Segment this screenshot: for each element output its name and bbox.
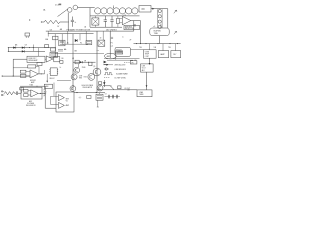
- label 2s: [60, 67, 62, 69]
- diode CR4: [75, 39, 78, 42]
- wire: [61, 34, 63, 45]
- wire: [73, 62, 96, 63]
- svg-text:2s: 2s: [60, 67, 62, 69]
- svg-text:c/L: c/L: [153, 26, 155, 28]
- fuse F1 body: [59, 4, 62, 6]
- label 2R: [100, 37, 102, 39]
- svg-text:CONT: CONT: [145, 56, 149, 58]
- wire: [90, 16, 122, 27]
- aux box: [21, 87, 42, 99]
- wire: [97, 89, 137, 91]
- bus line 1: [46, 30, 134, 32]
- svg-text:+: +: [31, 95, 32, 97]
- label AA: [64, 48, 67, 51]
- svg-text:DC REF LEVEL: DC REF LEVEL: [115, 78, 126, 80]
- wire: [131, 49, 144, 51]
- rail 2: [8, 51, 45, 52]
- svg-text:4s: 4s: [67, 42, 69, 44]
- label AC OUT: [128, 89, 131, 92]
- wire: [67, 31, 69, 44]
- op-amp U1: [120, 16, 131, 24]
- svg-text:REG IC: REG IC: [50, 78, 56, 80]
- label F2: [80, 43, 82, 45]
- transistor Q4: [88, 74, 95, 81]
- legend row 3: [104, 72, 128, 75]
- wire: [150, 44, 176, 51]
- diode CR7: [22, 47, 25, 49]
- wire: [96, 31, 98, 92]
- ref box: [44, 84, 52, 88]
- fuse F3: [25, 33, 30, 38]
- svg-text:+: +: [31, 76, 32, 78]
- wire: [79, 34, 81, 41]
- label BB: [75, 51, 78, 53]
- bridge rectifier CR5: [98, 40, 105, 46]
- resistor R14: [118, 86, 121, 89]
- diode CR9: [80, 61, 83, 63]
- bridge rectifier CR1: [92, 16, 99, 27]
- wire: [53, 83, 55, 97]
- bus label 2: [106, 30, 117, 32]
- svg-text:DETECTOR: DETECTOR: [125, 28, 134, 30]
- center tap: [112, 5, 115, 8]
- label Q5: [93, 66, 95, 68]
- op-amp U5: [58, 95, 64, 101]
- legend row 4: [104, 78, 126, 80]
- svg-text:C9: C9: [105, 93, 107, 95]
- svg-text:VOLT: VOLT: [142, 68, 146, 70]
- pot VR1: [124, 61, 137, 65]
- IC label: [50, 78, 56, 80]
- svg-text:2F: 2F: [130, 40, 132, 42]
- bus line 3: [134, 43, 181, 44]
- wire: [102, 31, 104, 40]
- regulator tube V1: [157, 9, 162, 29]
- bus label: [60, 28, 91, 31]
- resistor R10: [4, 92, 15, 95]
- transformer T1: [139, 6, 151, 13]
- label C8: [134, 60, 136, 62]
- amplifier label box: [124, 25, 139, 30]
- terminal E1: [1, 91, 4, 92]
- svg-text:ERROR: ERROR: [30, 80, 37, 82]
- wire: [97, 93, 100, 107]
- oven control box: [144, 50, 157, 58]
- wire: [67, 13, 69, 32]
- wire: [45, 107, 56, 109]
- svg-text:SET: SET: [44, 94, 47, 96]
- legend row 1: [104, 68, 127, 71]
- svg-text:1c: 1c: [122, 37, 124, 39]
- wire: [115, 56, 117, 59]
- svg-text:C8: C8: [134, 60, 136, 62]
- tilde marks: [97, 50, 100, 52]
- transistor Q5: [93, 68, 101, 76]
- label TH: [174, 31, 178, 35]
- svg-text:IC8: IC8: [124, 15, 127, 17]
- tick marks: [111, 37, 113, 38]
- wire: [78, 64, 80, 68]
- sense amp box: [27, 56, 45, 62]
- svg-text:LINE VOLT: LINE VOLT: [28, 58, 36, 60]
- op-amp U6: [58, 102, 64, 108]
- resistor R9: [87, 96, 91, 99]
- resistor R6: [20, 70, 30, 73]
- svg-text:TEMP: TEMP: [145, 54, 149, 56]
- label R6: [62, 58, 64, 60]
- wire: [45, 48, 55, 60]
- wire: [38, 48, 40, 57]
- svg-text:HV OUT: HV OUT: [125, 88, 131, 90]
- wire: [7, 48, 9, 52]
- sense inner box: [116, 51, 123, 54]
- svg-text:R6: R6: [62, 58, 64, 60]
- hv adjust label: [44, 90, 47, 98]
- wire: [131, 20, 141, 22]
- wire: [47, 31, 49, 36]
- label T2: [110, 85, 112, 87]
- svg-text:2v: 2v: [75, 22, 77, 24]
- resistor R7: [20, 74, 30, 77]
- legend row 2: [104, 63, 126, 66]
- resistor R3: [51, 48, 56, 51]
- transistor Q3: [74, 67, 80, 73]
- svg-text:T2: T2: [110, 85, 112, 87]
- servo label: [66, 98, 70, 106]
- wire: [90, 15, 140, 17]
- wire: [104, 59, 140, 61]
- wire: [151, 8, 168, 28]
- svg-text:F2: F2: [80, 43, 82, 45]
- diode CR11: [20, 87, 23, 93]
- svg-text:30: 30: [100, 37, 102, 39]
- diode CR8: [22, 50, 25, 52]
- wire: [62, 43, 88, 45]
- wire: [29, 45, 34, 52]
- svg-text:LINE: LINE: [142, 65, 145, 67]
- op-amp U7: [31, 90, 38, 98]
- svg-text:o-4: o-4: [111, 46, 113, 48]
- wire: [78, 8, 90, 16]
- svg-text:LINE: LINE: [79, 76, 82, 78]
- wire: [45, 70, 49, 83]
- svg-text:F1: F1: [111, 42, 113, 44]
- label IC8: [124, 15, 127, 17]
- relay K2: [59, 40, 65, 46]
- label 2C1: [55, 5, 60, 7]
- wire: [146, 72, 148, 90]
- wire: [74, 92, 105, 93]
- wire: [57, 79, 71, 81]
- resistor R4: [58, 50, 63, 52]
- op-amp U2: [46, 56, 53, 62]
- resistor R13: [45, 45, 49, 48]
- output box: [137, 90, 152, 97]
- label 3R: [84, 61, 87, 63]
- wire: [2, 76, 30, 77]
- diode CR6: [13, 47, 16, 49]
- wire: [140, 21, 141, 44]
- resistor R15: [60, 61, 63, 64]
- bias box: [96, 94, 103, 100]
- resistor R2: [117, 16, 120, 27]
- relay box: [171, 51, 181, 58]
- hv output label: [125, 88, 131, 90]
- svg-text:Q5: Q5: [93, 66, 95, 68]
- label AC: [43, 9, 46, 12]
- capacitor C10: [15, 91, 21, 95]
- wire: [133, 21, 135, 32]
- bus line 2: [48, 33, 94, 35]
- wire: [55, 53, 104, 55]
- label AB2: [15, 43, 18, 46]
- wire: [72, 34, 74, 90]
- wire: [149, 58, 151, 65]
- capacitor C2: [104, 16, 107, 27]
- hv regulator label: [82, 84, 93, 89]
- servo amp box: [56, 92, 74, 112]
- svg-text:HV: HV: [44, 90, 46, 92]
- resistor R12: [24, 94, 31, 97]
- regulator label: [79, 67, 87, 79]
- transistor Q7: [97, 82, 103, 91]
- choke L1: [90, 8, 138, 14]
- svg-text:REF: REF: [46, 86, 49, 88]
- label T/B c: [168, 47, 171, 49]
- breaker CB1: [50, 30, 53, 32]
- wire: [159, 36, 161, 44]
- svg-text:+(-): +(-): [79, 97, 82, 99]
- wire: [20, 86, 45, 87]
- wire: [38, 93, 45, 94]
- wire: [54, 34, 56, 48]
- resistor R5: [13, 65, 39, 74]
- label row: [111, 46, 113, 48]
- rail 1: [8, 47, 56, 48]
- svg-text:PT: PT: [44, 96, 46, 98]
- label rows: [111, 37, 132, 45]
- filter FL1: [86, 41, 92, 45]
- oscillator oval: [105, 53, 117, 59]
- comparator A1 box: [50, 52, 57, 57]
- IC U4: [49, 68, 58, 76]
- svg-text:LINE SENSE IN: LINE SENSE IN: [115, 69, 127, 71]
- meter M1: [150, 28, 169, 36]
- label 2v: [75, 22, 77, 24]
- label CR3: [25, 45, 28, 47]
- resistor R8: [75, 60, 79, 64]
- wire: [103, 64, 113, 66]
- relay K1: [53, 36, 58, 40]
- capacitor C3: [110, 16, 113, 27]
- aux label: [26, 100, 36, 107]
- wire: [109, 31, 111, 58]
- wire: [85, 31, 87, 44]
- lamp DS1: [67, 8, 72, 13]
- label T/B b: [154, 47, 157, 49]
- svg-text:28V UNREG: 28V UNREG: [106, 30, 117, 32]
- op-amp U3: [30, 70, 38, 78]
- box small: [37, 62, 42, 65]
- sense enclosure: [115, 47, 131, 56]
- svg-text:OVEN: OVEN: [145, 51, 149, 53]
- box small2: [89, 62, 92, 65]
- resistor R1: [41, 20, 69, 23]
- terminal E2: [1, 94, 4, 95]
- switch S1: [58, 9, 69, 17]
- diode CR10: [104, 61, 107, 64]
- lamp box: [158, 51, 168, 58]
- label 115V: [57, 26, 60, 28]
- error amp label: [30, 80, 37, 84]
- wire: [13, 59, 27, 76]
- label T/B a: [139, 47, 142, 49]
- lamp DS2: [73, 5, 78, 10]
- resistor R11: [24, 89, 31, 92]
- box H: [54, 57, 60, 62]
- wire: [44, 86, 46, 108]
- tick marks: [133, 24, 135, 26]
- label 7A: [174, 10, 178, 14]
- label polarity: [79, 97, 82, 99]
- svg-text:XX: XX: [141, 8, 145, 11]
- wire: [51, 96, 59, 104]
- svg-text:VOLT: VOLT: [84, 76, 88, 78]
- label top: [30, 84, 34, 87]
- diode CR2: [153, 24, 161, 28]
- svg-text:PRIMARY POWER DISTR: PRIMARY POWER DISTR: [67, 28, 91, 31]
- label 4R: [72, 58, 75, 60]
- diode CR12: [103, 80, 105, 87]
- adjust box: [141, 64, 154, 72]
- wire: [38, 73, 44, 74]
- svg-text:u-c: u-c: [97, 50, 100, 52]
- label WA: [45, 38, 49, 41]
- svg-text:2N30: 2N30: [82, 67, 86, 69]
- transistor Q8: [71, 74, 77, 80]
- wire: [103, 86, 114, 90]
- capacitor C1: [71, 17, 74, 27]
- node A (spare tick): [29, 19, 30, 20]
- capacitor bank C9: [105, 93, 121, 98]
- label 1A: [84, 26, 86, 29]
- label 4s: [67, 42, 69, 44]
- transistor Q6: [70, 86, 76, 92]
